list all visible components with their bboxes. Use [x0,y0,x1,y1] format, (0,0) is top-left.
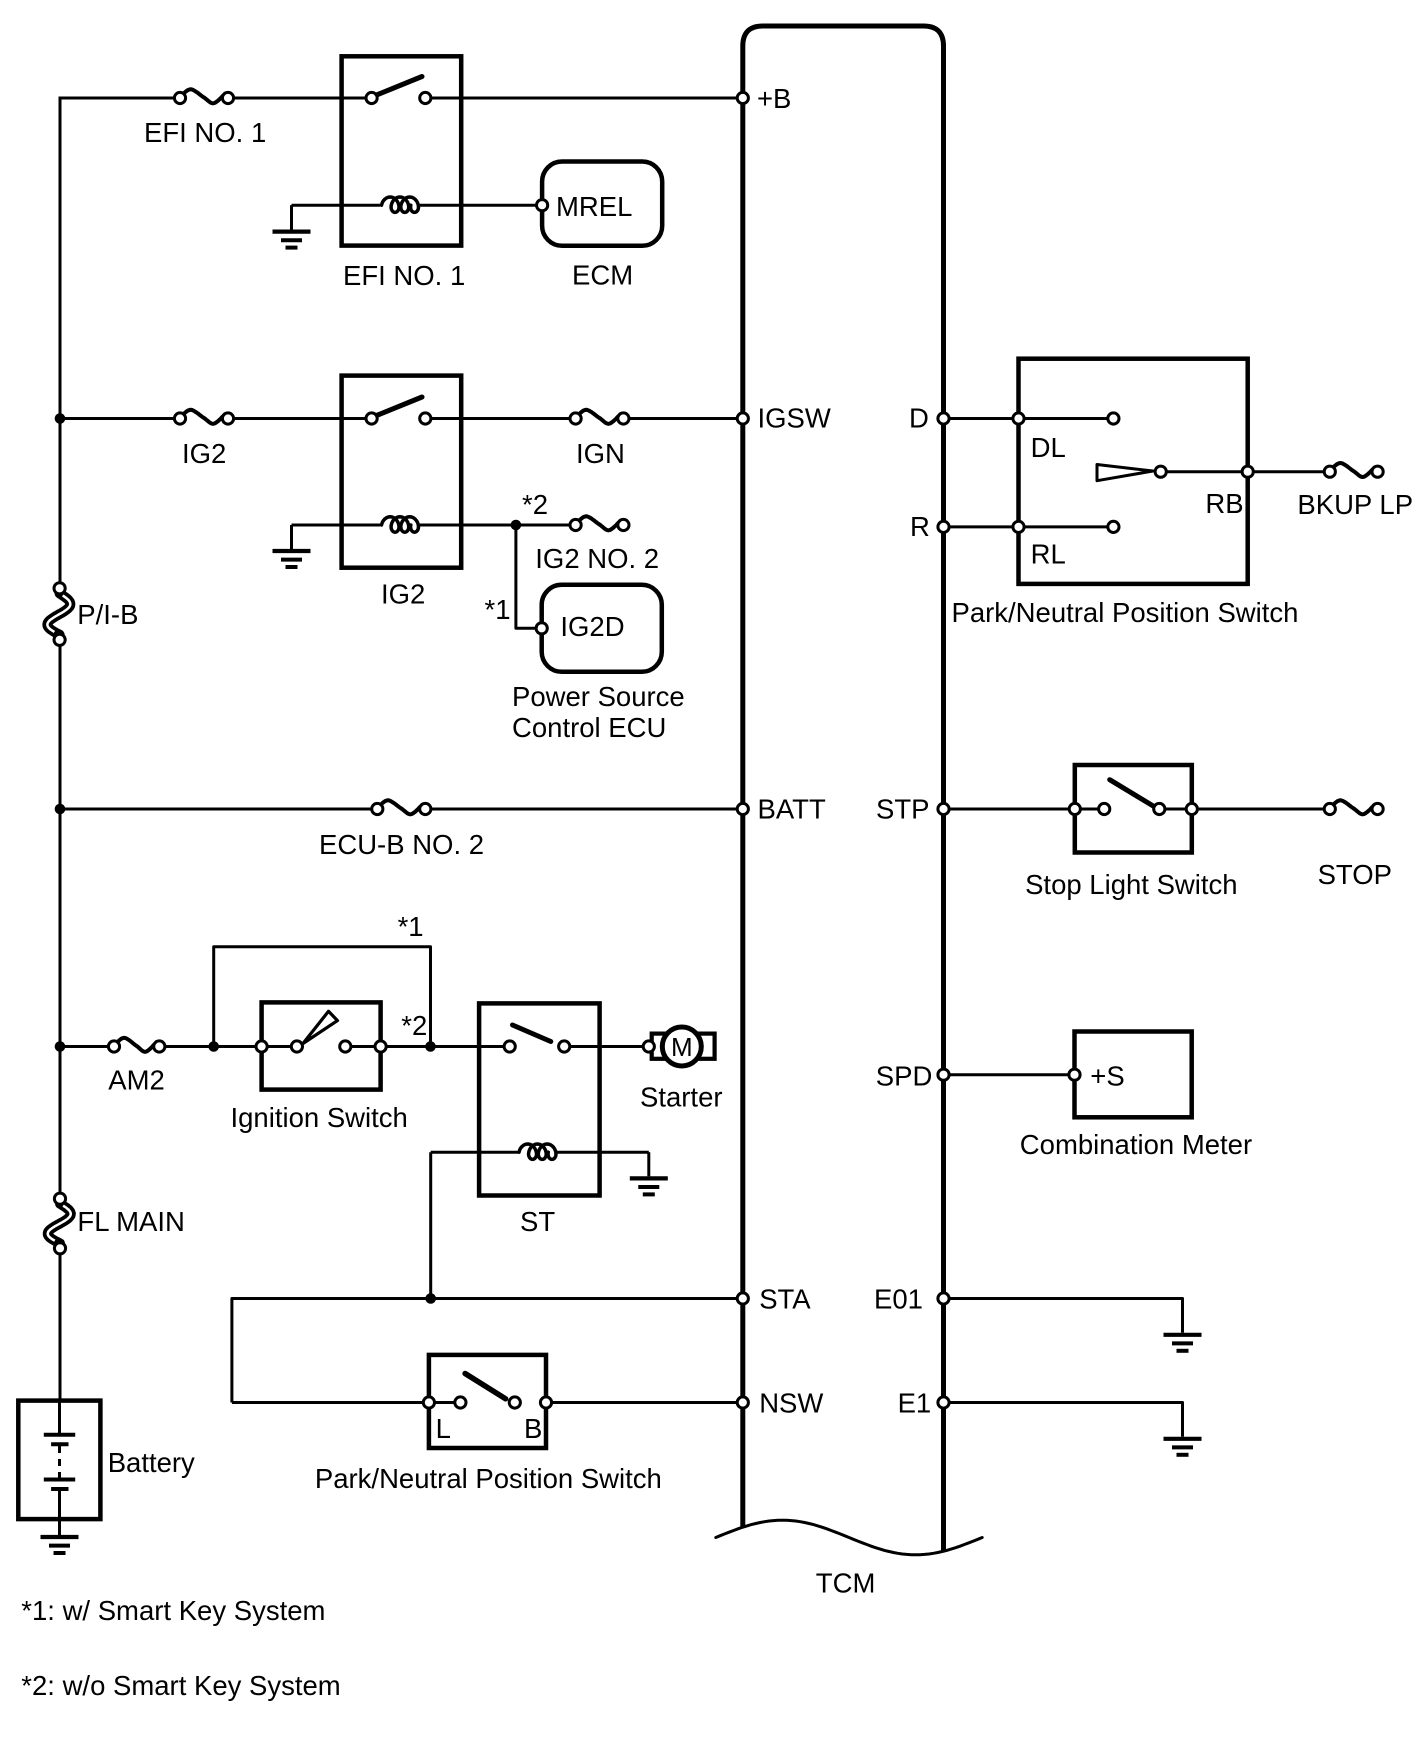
wire R terminal to switch [944,525,1114,528]
svg-text:E1: E1 [898,1388,932,1419]
wire RB to fuse BKUP LP [1248,470,1330,473]
svg-text:EFI NO. 1: EFI NO. 1 [144,117,266,148]
junction left bus / BATT row [55,804,66,815]
ignition switch contact edge left [256,1041,267,1052]
battery plate long bottom [44,1478,75,1482]
svg-text:FL MAIN: FL MAIN [77,1206,184,1237]
svg-text:IG2: IG2 [182,438,226,469]
ground at E01 [1164,1335,1202,1351]
park/neutral right contact DL [1108,413,1119,424]
starter motor circle [662,1027,701,1066]
svg-text:*2: *2 [522,489,548,520]
fuse STOP [1324,800,1383,814]
terminal IG2D [536,623,547,634]
relay ST switch blade [513,1025,551,1042]
svg-text:NSW: NSW [759,1388,823,1419]
ground at IG2 relay coil [273,551,311,567]
park/neutral position switch box (right) [1019,359,1248,584]
wire relay IG2 to fuse IGN [425,417,575,420]
park/neutral contact edge L [423,1397,434,1408]
wire left bus lower segment [59,1248,62,1400]
wire riser to ST coil [431,1151,518,1154]
wire ST coil riser down to STA [429,1152,432,1298]
terminal +B [737,92,748,103]
TCM module outline (rounded top, open bottom) [743,26,944,1552]
terminal BATT [737,803,748,814]
stop light switch blade [1110,780,1157,808]
wire row1 battery bus to fuse [59,97,181,100]
wire battery top lead [58,1401,61,1435]
svg-text:BKUP LP: BKUP LP [1297,489,1413,520]
svg-text:R: R [910,511,930,542]
ignition switch contact inner right [340,1041,351,1052]
relay EFI NO. 1 contact right [420,92,431,103]
svg-text:Battery: Battery [108,1447,195,1478]
svg-text:Power Source: Power Source [512,681,685,712]
relay IG2 box [342,376,462,568]
wire D terminal to switch [944,417,1114,420]
wire arm to RB [1161,470,1248,473]
wire *1 bypass around ignition switch [214,947,431,1047]
terminal SPD [938,1069,949,1080]
wire stop light switch to fuse STOP [1159,808,1330,811]
wire fuse ECU-B to TCM BATT [425,808,743,811]
svg-text:DL: DL [1031,432,1066,463]
svg-text:IG2 NO. 2: IG2 NO. 2 [535,543,659,574]
svg-text:Starter: Starter [640,1081,723,1112]
fuse BKUP LP [1324,463,1383,477]
wire fuse AM2 to ignition switch [159,1045,297,1048]
fuse AM2 [108,1038,164,1052]
svg-text:AM2: AM2 [108,1064,165,1095]
svg-text:RB: RB [1205,488,1243,519]
relay ST coil [519,1144,556,1159]
svg-text:*1: w/ Smart Key System: *1: w/ Smart Key System [21,1595,325,1626]
relay EFI NO. 1 switch blade [377,77,423,96]
park/neutral contact inner right [509,1397,520,1408]
relay ST contact left [504,1041,515,1052]
svg-text:*1: *1 [398,911,424,942]
svg-text:MREL: MREL [556,191,632,222]
terminal STP [938,803,949,814]
wire row3 bus to fuse ECU-B [60,808,377,811]
wire ST ground drop [647,1152,650,1176]
wire left bus middle segment [59,640,62,1199]
wire junction down to IG2D [516,525,542,628]
relay IG2 switch blade [377,397,423,416]
ignition switch contact edge right [375,1041,386,1052]
wire IG2 coil to junction [420,524,576,527]
wire ignition switch to ST relay [345,1045,509,1048]
svg-text:Control ECU: Control ECU [512,712,666,743]
terminal NSW [737,1397,748,1408]
battery box [18,1401,100,1520]
terminal IGSW [737,413,748,424]
relay IG2 contact right [420,413,431,424]
terminal R [938,521,949,532]
fuse EFI NO. 1 [174,89,233,103]
wire ST relay to starter [564,1045,649,1048]
wire ground stub to coil [292,204,381,207]
park/neutral right contact edge D [1013,413,1024,424]
terminal E1 [938,1397,949,1408]
combination meter box [1075,1032,1192,1118]
stop light contact edge left [1069,803,1080,814]
park/neutral contact edge B [540,1397,551,1408]
wire NSW row left [232,1401,461,1404]
svg-text:SPD: SPD [876,1061,933,1092]
svg-text:TCM: TCM [816,1568,876,1599]
ignition switch contact inner left [291,1041,302,1052]
svg-text:ECM: ECM [572,260,633,291]
junction bypass left [208,1041,219,1052]
terminal E01 [938,1293,949,1304]
svg-text:+B: +B [757,83,791,114]
park/neutral position switch box (starter circuit) [429,1355,546,1448]
ECM MREL connector box [542,162,662,246]
svg-text:*2: w/o Smart Key System: *2: w/o Smart Key System [21,1670,340,1701]
svg-text:D: D [909,403,929,434]
ground at E1 [1164,1439,1202,1455]
wire ST coil to ground [557,1151,649,1154]
park/neutral right contact edge R [1013,521,1024,532]
battery plate short bottom [51,1487,68,1491]
svg-text:B: B [524,1413,542,1444]
wire SPD to combination meter [944,1073,1075,1076]
junction node *2 right of ignition switch [425,1041,436,1052]
ignition switch wedge blade [303,1011,338,1043]
wire coil to MREL [420,204,542,207]
terminal MREL [537,200,548,211]
svg-text:Park/Neutral Position Switch: Park/Neutral Position Switch [952,597,1299,628]
fusible link P/I-B [47,583,70,646]
svg-text:ST: ST [520,1206,555,1237]
park/neutral right contact RB [1242,466,1253,477]
wire ground stub to IG2 coil [292,524,381,527]
relay EFI NO. 1 contact left [366,92,377,103]
svg-text:IGSW: IGSW [758,403,831,434]
relay IG2 coil [382,517,419,532]
svg-text:IG2D: IG2D [560,611,624,642]
wire fuse to relay contact [228,97,372,100]
svg-text:BATT: BATT [758,794,826,825]
svg-text:*1: *1 [485,594,511,625]
ground at ST relay coil [630,1178,668,1194]
svg-text:STOP: STOP [1318,859,1392,890]
stop light contact inner left [1099,803,1110,814]
ground at battery [41,1537,79,1553]
battery dashed center link [58,1446,61,1478]
svg-text:IG2: IG2 [381,579,425,610]
relay ST box [479,1003,599,1195]
relay EFI NO. 1 box [342,56,462,245]
battery plate short top [51,1442,68,1446]
svg-text:STP: STP [876,794,929,825]
svg-text:STA: STA [759,1284,811,1315]
TCM bottom break (wavy line) [716,1520,982,1555]
wire E01 to ground [944,1299,1183,1333]
wire STP to stop light switch [944,808,1105,811]
wire park/neutral to TCM NSW [546,1401,743,1404]
Power Source Control ECU IG2D connector box [542,585,662,672]
junction left bus / IGSW row [55,413,66,424]
wire ground drop [290,205,293,229]
relay ST contact right [559,1041,570,1052]
svg-text:Combination Meter: Combination Meter [1020,1129,1252,1160]
ground at EFI relay coil [273,232,311,248]
svg-text:M: M [671,1032,693,1062]
park/neutral right contact arm [1155,466,1166,477]
wire row2 bus to fuse IG2 [60,417,180,420]
wire row4 bus to fuse AM2 [60,1045,114,1048]
wire fuse IG2 to relay [228,417,372,420]
park/neutral contact inner left [455,1397,466,1408]
wire left bus top segment [59,97,62,589]
junction STA / ST coil riser [425,1293,436,1304]
svg-text:RL: RL [1031,539,1066,570]
fusible link FL MAIN [48,1193,71,1254]
relay EFI NO. 1 coil [382,197,419,212]
svg-text:E01: E01 [874,1284,923,1315]
park/neutral right wedge arm [1097,465,1153,481]
terminal +S [1069,1069,1080,1080]
fuse IGN [570,410,629,424]
ignition switch box [262,1002,381,1089]
svg-text:Stop Light Switch: Stop Light Switch [1025,869,1237,900]
fuse IG2 [174,410,233,424]
svg-text:Ignition Switch: Ignition Switch [231,1102,408,1133]
wire fuse IGN to TCM IGSW [623,417,742,420]
park/neutral switch blade [465,1374,506,1399]
fuse ECU-B NO. 2 [372,800,431,814]
terminal STA [737,1293,748,1304]
relay IG2 contact left [366,413,377,424]
svg-text:ECU-B NO. 2: ECU-B NO. 2 [319,829,484,860]
junction left bus / AM2 row [55,1041,66,1052]
terminal starter [643,1041,654,1052]
stop light switch box [1075,765,1192,853]
battery plate long top [44,1433,75,1437]
svg-text:+S: +S [1090,1061,1124,1092]
wire battery bottom lead [58,1489,61,1535]
stop light contact edge right [1186,803,1197,814]
svg-text:*2: *2 [401,1010,427,1041]
wire STA row with left drop [232,1299,743,1403]
svg-text:Park/Neutral Position Switch: Park/Neutral Position Switch [315,1463,662,1494]
wire relay to TCM +B [425,97,743,100]
svg-text:P/I-B: P/I-B [77,599,138,630]
stop light contact inner right [1154,803,1165,814]
svg-text:IGN: IGN [576,438,625,469]
wire IG2 ground drop [290,525,293,549]
starter motor bracket [652,1034,715,1059]
fuse IG2 NO. 2 [570,516,629,530]
svg-text:L: L [436,1413,451,1444]
wire E1 to ground [944,1403,1183,1437]
park/neutral right contact RL [1108,521,1119,532]
terminal D [938,413,949,424]
junction node *2 on coil wire [511,520,522,531]
svg-text:EFI NO. 1: EFI NO. 1 [343,260,465,291]
